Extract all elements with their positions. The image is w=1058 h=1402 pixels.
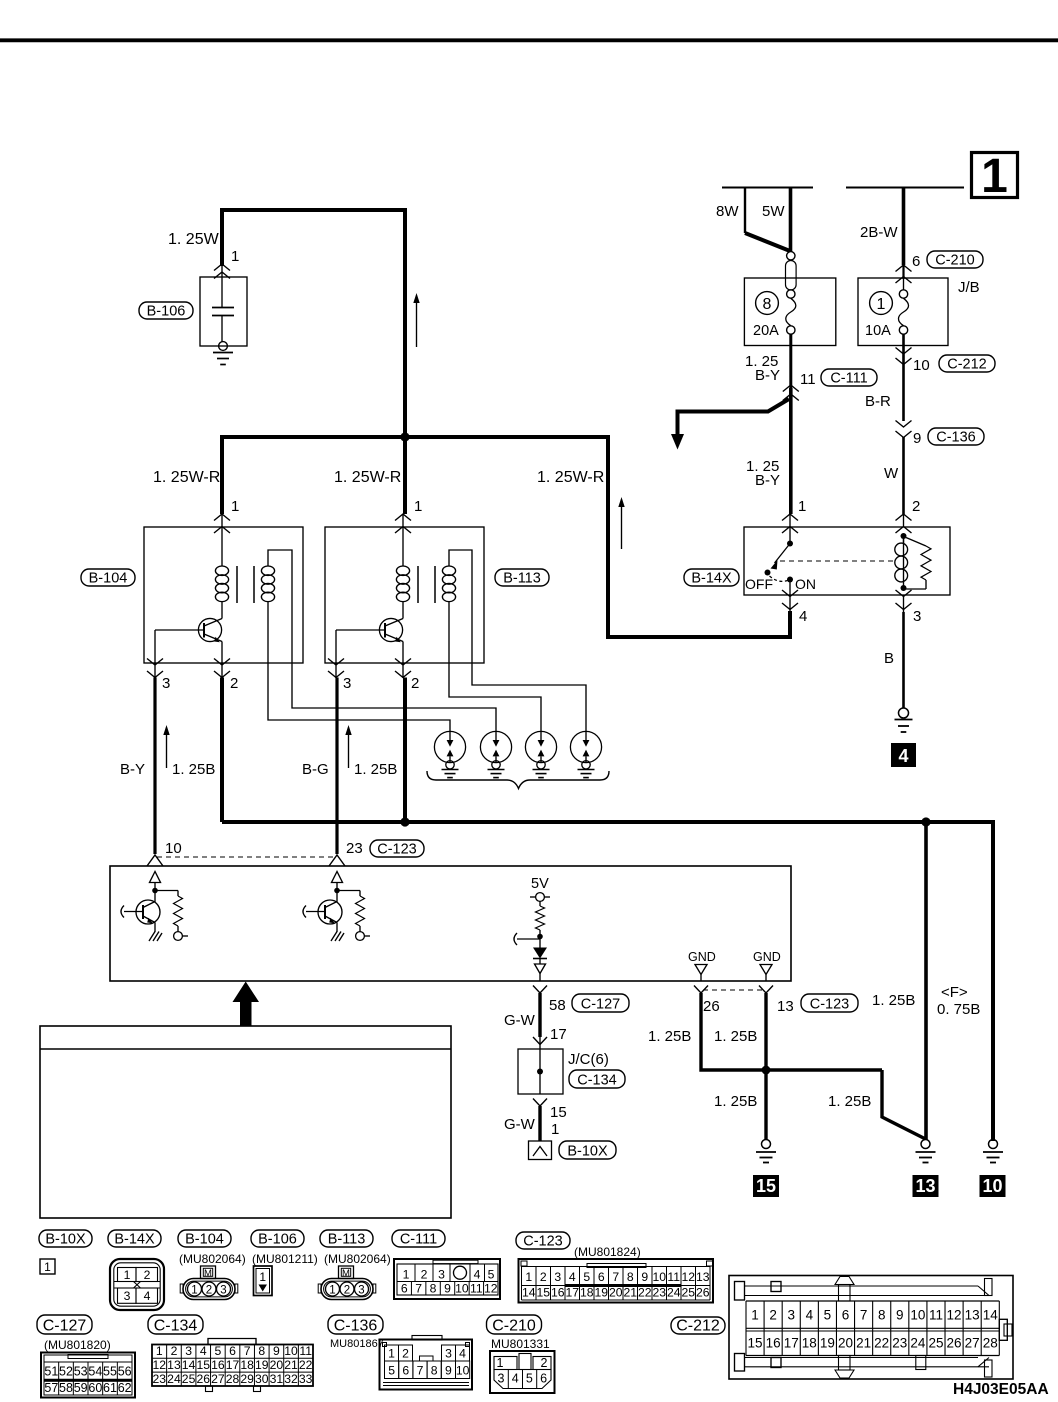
connector chevrons at B-113 pin 2 [402, 663, 404, 678]
svg-text:10: 10 [455, 1282, 469, 1296]
relay B-14X box [744, 527, 950, 595]
input triangle at ECU x=155 [150, 872, 161, 883]
svg-text:3: 3 [445, 1347, 452, 1361]
svg-text:6: 6 [842, 1308, 850, 1323]
current arrow on B-G side wire [348, 734, 350, 768]
svg-text:9: 9 [444, 1282, 451, 1296]
svg-text:5: 5 [214, 1344, 221, 1358]
svg-text:26: 26 [196, 1372, 210, 1386]
svg-text:B-106: B-106 [258, 1232, 297, 1248]
svg-text:7: 7 [612, 1270, 619, 1284]
pin 58 terminal at C-127 [533, 986, 547, 994]
svg-text:6: 6 [598, 1270, 605, 1284]
svg-text:5: 5 [526, 1372, 533, 1386]
transistor inside relay B-113 [379, 618, 402, 641]
svg-text:15: 15 [748, 1336, 763, 1351]
svg-text:26: 26 [696, 1286, 710, 1300]
svg-text:(MU801211): (MU801211) [252, 1252, 318, 1266]
svg-text:12: 12 [681, 1270, 695, 1284]
svg-text:4: 4 [898, 746, 908, 766]
relay B-104 secondary coil [261, 566, 274, 575]
svg-text:1. 25W-R: 1. 25W-R [537, 469, 604, 486]
svg-text:1: 1 [751, 1308, 759, 1323]
connector label C-136 bottom [328, 1315, 383, 1334]
svg-text:22: 22 [299, 1358, 313, 1372]
svg-text:14: 14 [522, 1286, 536, 1300]
wire through C-210 chevrons [902, 265, 904, 279]
svg-text:8: 8 [878, 1308, 886, 1323]
svg-text:60: 60 [88, 1381, 102, 1395]
connector label C-111 [392, 1230, 445, 1247]
svg-text:10: 10 [456, 1364, 470, 1378]
svg-text:5W: 5W [762, 203, 785, 220]
svg-text:9: 9 [445, 1364, 452, 1378]
svg-text:<F>: <F> [941, 984, 968, 1001]
svg-text:1. 25B: 1. 25B [872, 992, 915, 1009]
svg-text:25: 25 [681, 1286, 695, 1300]
svg-text:3: 3 [554, 1270, 561, 1284]
svg-text:13: 13 [777, 998, 794, 1015]
junction dot at top distribution node [400, 432, 409, 441]
svg-text:3: 3 [498, 1372, 505, 1386]
connector label B-106 [251, 1230, 304, 1247]
transistor inside relay B-104 [198, 618, 221, 641]
ground tag 15 [753, 1175, 779, 1197]
ground tag 4 [891, 743, 916, 767]
svg-text:B-104: B-104 [185, 1232, 224, 1248]
svg-text:23: 23 [892, 1336, 907, 1351]
wire G-W pin 58 to J/C [538, 993, 541, 1037]
wire 5W [789, 188, 793, 253]
svg-text:2: 2 [344, 1285, 350, 1297]
svg-text:(MU802064): (MU802064) [179, 1252, 246, 1266]
svg-text:23: 23 [652, 1286, 666, 1300]
svg-text:15: 15 [536, 1286, 550, 1300]
svg-text:B-14X: B-14X [691, 571, 732, 587]
svg-text:4: 4 [200, 1344, 207, 1358]
GND triangle left at pin 26 [695, 965, 707, 975]
svg-text:15: 15 [196, 1358, 210, 1372]
svg-text:9: 9 [273, 1344, 280, 1358]
svg-text:1: 1 [329, 1285, 335, 1297]
bus line top left segment [722, 187, 813, 189]
connector chevrons at B-104 pin 2 [221, 663, 223, 678]
output arrow to pin 58 [535, 964, 546, 974]
svg-text:M: M [342, 1268, 350, 1279]
svg-text:57: 57 [44, 1381, 58, 1395]
ground tag 10 [980, 1175, 1006, 1197]
relay B-104 box [144, 527, 303, 663]
wire B-104 coil to lamp 1 [268, 601, 450, 732]
svg-text:10: 10 [910, 1308, 925, 1323]
svg-text:ON: ON [795, 576, 816, 592]
current arrow on 1.25W-R right branch [621, 506, 623, 549]
connector label C-123 [516, 1232, 570, 1249]
fuse 1 element [899, 290, 907, 298]
svg-text:31: 31 [270, 1372, 284, 1386]
wire 1.25B from pin 26 [701, 993, 882, 1070]
connector label C-134 bottom [148, 1315, 203, 1334]
svg-text:16: 16 [211, 1358, 225, 1372]
svg-text:14: 14 [983, 1308, 999, 1323]
svg-text:16: 16 [551, 1286, 565, 1300]
svg-text:3: 3 [913, 608, 921, 625]
svg-text:1. 25B: 1. 25B [714, 1028, 757, 1045]
svg-text:1. 25B: 1. 25B [648, 1028, 691, 1045]
svg-text:58: 58 [59, 1381, 73, 1395]
connector label B-113 [320, 1230, 373, 1247]
svg-text:20: 20 [270, 1358, 284, 1372]
svg-text:11: 11 [299, 1344, 312, 1358]
ground symbol 10 [989, 1140, 998, 1149]
svg-text:29: 29 [240, 1372, 254, 1386]
svg-text:5: 5 [488, 1268, 495, 1282]
svg-text:55: 55 [103, 1365, 117, 1379]
svg-text:10: 10 [165, 840, 182, 857]
svg-text:12: 12 [947, 1308, 962, 1323]
svg-text:25: 25 [928, 1336, 943, 1351]
svg-text:5: 5 [388, 1364, 395, 1378]
svg-text:5: 5 [824, 1308, 832, 1323]
svg-text:1: 1 [156, 1344, 163, 1358]
connector drawing C-123 [519, 1259, 714, 1303]
pin 10 terminal flare at C-123 [147, 855, 163, 866]
resistor parallel to coil [906, 538, 926, 547]
svg-text:28: 28 [983, 1336, 998, 1351]
connector chevrons at B-104 pin 1 [214, 514, 230, 521]
svg-text:53: 53 [74, 1365, 88, 1379]
svg-text:51: 51 [44, 1365, 58, 1379]
svg-text:9: 9 [896, 1308, 904, 1323]
wire 1.25B drop to ground 13 [924, 822, 928, 1140]
svg-text:52: 52 [59, 1365, 73, 1379]
svg-text:C-136: C-136 [936, 430, 976, 446]
svg-text:MU801867: MU801867 [330, 1338, 384, 1350]
pin 17 terminal at C-134 [533, 1037, 547, 1045]
svg-text:1: 1 [497, 1356, 504, 1370]
connector label B-10X [39, 1230, 92, 1247]
svg-text:23: 23 [153, 1372, 167, 1386]
lamp at x=541 [525, 731, 556, 762]
svg-text:16: 16 [766, 1336, 781, 1351]
svg-text:12: 12 [153, 1358, 167, 1372]
svg-text:11: 11 [800, 371, 816, 388]
svg-text:1. 25B: 1. 25B [828, 1093, 871, 1110]
capacitor B-106 box [200, 277, 247, 346]
relay B-113 contact bars [417, 566, 419, 603]
svg-text:2: 2 [540, 1270, 547, 1284]
joint connector J/C box [518, 1049, 563, 1094]
connector chevrons at B-14X pin 3 [903, 595, 905, 612]
svg-text:8: 8 [627, 1270, 634, 1284]
relay B-113 secondary coil [442, 566, 455, 575]
svg-text:1: 1 [44, 1260, 51, 1274]
connector label B-104 [81, 569, 135, 586]
svg-text:B-10X: B-10X [45, 1232, 86, 1248]
svg-text:32: 32 [284, 1372, 298, 1386]
lamp at x=586 [570, 731, 601, 762]
connector drawing C-134 [208, 1339, 256, 1345]
svg-text:4: 4 [806, 1308, 814, 1323]
brace under lamps [427, 771, 609, 789]
fuse box 8 [744, 278, 835, 346]
lamp at x=450 [434, 731, 465, 762]
pin 26 terminal at C-123 [694, 986, 708, 994]
relay B-113 primary coil [402, 514, 404, 566]
svg-text:19: 19 [255, 1358, 269, 1372]
wire 8W [744, 188, 746, 234]
svg-text:1: 1 [259, 1270, 266, 1284]
wire B-104 coil to lamp 2 [268, 550, 496, 732]
svg-text:7: 7 [417, 1364, 424, 1378]
svg-text:17: 17 [784, 1336, 799, 1351]
wire W to B-14X pin 2 [902, 437, 905, 514]
connector label C-212 inline [939, 355, 995, 372]
base wire to pin 3 of relay B-113 [335, 630, 337, 663]
svg-text:9: 9 [913, 430, 921, 447]
wire from fuse 8 down [789, 334, 792, 392]
wire 1.25B link to ground 13 [882, 1070, 926, 1139]
svg-text:0. 75B: 0. 75B [937, 1001, 980, 1018]
svg-text:C-127: C-127 [43, 1318, 87, 1335]
svg-text:B-113: B-113 [503, 571, 541, 587]
svg-text:6: 6 [912, 253, 920, 270]
svg-text:6: 6 [401, 1282, 408, 1296]
connector label C-210 bottom [487, 1315, 542, 1334]
svg-text:5V: 5V [531, 876, 549, 892]
svg-text:19: 19 [820, 1336, 835, 1351]
svg-text:B-14X: B-14X [114, 1232, 155, 1248]
svg-text:59: 59 [74, 1381, 88, 1395]
svg-text:B-Y: B-Y [755, 367, 780, 384]
svg-text:25: 25 [182, 1372, 196, 1386]
connector drawing C-127 [41, 1353, 135, 1398]
junction dot ground bus at B-113 branch [400, 817, 409, 826]
legend box bottom left [40, 1026, 451, 1218]
svg-text:58: 58 [549, 997, 566, 1014]
svg-text:17: 17 [565, 1286, 579, 1300]
svg-text:B-113: B-113 [328, 1232, 366, 1248]
svg-text:1: 1 [525, 1270, 532, 1284]
lamp at x=496 [480, 731, 511, 762]
wire B from B-14X pin 3 to ground [902, 612, 905, 708]
svg-text:8: 8 [258, 1344, 265, 1358]
capacitor B-106 element [221, 264, 223, 307]
svg-text:G-W: G-W [504, 1012, 536, 1029]
connector label B-14X [108, 1230, 161, 1247]
branch arrow wire to other circuit [678, 399, 790, 436]
svg-text:18: 18 [580, 1286, 594, 1300]
svg-text:C-212: C-212 [947, 357, 987, 373]
wire 1.25B-Y to B-14X pin 1 [789, 388, 793, 514]
svg-text:6: 6 [402, 1364, 409, 1378]
svg-text:B-106: B-106 [147, 304, 186, 320]
junction dot ground bus at right drop [921, 817, 930, 826]
connector label C-210 [927, 251, 983, 268]
svg-text:24: 24 [910, 1336, 926, 1351]
connector drawing C-210 [490, 1351, 555, 1393]
svg-text:B-R: B-R [865, 393, 891, 410]
svg-text:23: 23 [346, 840, 363, 857]
wire B-Y from B-104 pin 3 to ECU pin 10 [153, 678, 156, 855]
svg-text:2: 2 [206, 1285, 212, 1297]
svg-text:21: 21 [284, 1358, 298, 1372]
svg-text:24: 24 [667, 1286, 681, 1300]
svg-text:B-104: B-104 [89, 571, 128, 587]
connector label C-134 inline [569, 1070, 625, 1088]
wire 1.25B from B-113 pin 2 to ground line [403, 678, 407, 823]
svg-text:C-134: C-134 [577, 1073, 617, 1089]
svg-text:1: 1 [191, 1285, 197, 1297]
wire 1.25B from pin 13 to ground 15 [764, 993, 767, 1140]
connector label B-10X inline [559, 1141, 616, 1159]
svg-text:3: 3 [220, 1285, 226, 1297]
svg-text:(MU801824): (MU801824) [574, 1245, 641, 1259]
ground of B-106 [219, 342, 228, 351]
svg-text:30: 30 [255, 1372, 269, 1386]
connector chevrons at C-136 pin 9 [896, 421, 912, 428]
connector drawing C-136 [412, 1336, 442, 1341]
connector chevrons at B-106 pin 1 [214, 264, 230, 271]
page number box 1 [972, 153, 1018, 198]
svg-text:8W: 8W [716, 203, 739, 220]
dashed connector line C-123 bottom [703, 989, 763, 991]
svg-text:9: 9 [641, 1270, 648, 1284]
svg-text:3: 3 [787, 1308, 795, 1323]
svg-text:5: 5 [583, 1270, 590, 1284]
svg-text:J/B: J/B [958, 279, 980, 296]
svg-text:61: 61 [103, 1381, 117, 1395]
ground symbol 15 [762, 1140, 771, 1149]
svg-text:1: 1 [877, 296, 886, 313]
connector label B-106 [139, 302, 193, 319]
svg-text:10: 10 [913, 357, 930, 374]
ground symbol 13 [921, 1140, 930, 1149]
connector chevrons at C-212 pin 10 [896, 348, 912, 355]
svg-text:2: 2 [912, 498, 920, 515]
svg-text:10: 10 [284, 1344, 298, 1358]
svg-text:C-134: C-134 [154, 1318, 198, 1335]
svg-text:10: 10 [652, 1270, 666, 1284]
svg-text:1. 25B: 1. 25B [172, 761, 215, 778]
svg-text:3: 3 [162, 675, 170, 692]
svg-text:1: 1 [798, 498, 806, 515]
svg-text:3: 3 [124, 1289, 131, 1303]
svg-text:20A: 20A [753, 323, 779, 339]
svg-text:B-Y: B-Y [120, 761, 145, 778]
svg-text:B-G: B-G [302, 761, 329, 778]
svg-text:10A: 10A [865, 323, 891, 339]
terminal drawing B-10X [40, 1259, 55, 1274]
connector drawing C-111 [394, 1259, 500, 1299]
svg-text:11: 11 [667, 1270, 680, 1284]
wire 1.25B from B-104 pin 2 to ground line [220, 678, 224, 823]
svg-text:33: 33 [299, 1372, 313, 1386]
svg-text:1: 1 [231, 498, 239, 515]
diode in ECU 5V circuit [533, 948, 547, 959]
svg-text:B: B [884, 650, 894, 667]
relay B-104 primary coil [221, 514, 223, 566]
svg-text:10: 10 [982, 1176, 1002, 1196]
relay B-14X coil [901, 533, 907, 539]
svg-text:18: 18 [240, 1358, 254, 1372]
svg-text:C-127: C-127 [581, 997, 621, 1013]
connector label C-123 inline [801, 994, 858, 1012]
junction dot at ground link [762, 1066, 771, 1075]
wire B-G from B-113 pin 3 to ECU pin 23 [335, 678, 338, 855]
wire 1.25W from B-106 to junction [222, 210, 405, 437]
terminal box B-10X [529, 1141, 552, 1160]
connector chevrons at B-14X pin 4 [789, 595, 791, 612]
svg-text:OFF: OFF [745, 576, 773, 592]
connector label C-212 bottom [671, 1317, 725, 1334]
svg-text:22: 22 [874, 1336, 889, 1351]
relay B-104 contact bars [236, 566, 238, 603]
bus line top right segment [846, 187, 964, 189]
dashed link from switch to coil [780, 560, 897, 562]
svg-text:56: 56 [118, 1365, 132, 1379]
svg-text:20: 20 [838, 1336, 853, 1351]
connector label B-104 [178, 1230, 231, 1247]
fuse box 1 in J/B [858, 278, 948, 346]
svg-text:C-123: C-123 [810, 997, 850, 1013]
svg-text:4: 4 [459, 1347, 466, 1361]
ground symbol 4 [899, 708, 909, 718]
svg-text:13: 13 [965, 1308, 980, 1323]
block arrow into ECU [233, 982, 260, 1027]
svg-text:MU801331: MU801331 [491, 1337, 550, 1351]
GND triangle right at pin 13 [760, 965, 772, 975]
connector chevrons at B-113 pin 1 [395, 514, 411, 521]
wire 2B-W from J/B [902, 188, 906, 266]
svg-text:7: 7 [860, 1308, 868, 1323]
svg-text:12: 12 [484, 1282, 498, 1296]
svg-text:22: 22 [638, 1286, 652, 1300]
svg-text:54: 54 [88, 1365, 102, 1379]
svg-text:2: 2 [230, 675, 238, 692]
svg-text:27: 27 [965, 1336, 980, 1351]
svg-text:17: 17 [550, 1026, 567, 1043]
svg-text:27: 27 [211, 1372, 225, 1386]
svg-text:8: 8 [763, 296, 772, 313]
connector label C-127 inline [572, 994, 629, 1012]
connector chevrons at B-104 pin 3 [154, 663, 156, 678]
pin 23 terminal flare at C-123 [329, 855, 345, 866]
wire B-113 coil to lamp 3 [449, 601, 541, 732]
connector label C-111 [821, 369, 877, 386]
svg-text:1. 25W-R: 1. 25W-R [334, 469, 401, 486]
svg-text:1. 25W: 1. 25W [168, 231, 220, 248]
wire G-W to B-10X [538, 1106, 541, 1141]
svg-text:4: 4 [474, 1268, 481, 1282]
svg-text:11: 11 [929, 1308, 943, 1323]
svg-text:2: 2 [171, 1344, 178, 1358]
svg-text:C-212: C-212 [676, 1318, 720, 1335]
svg-text:1: 1 [388, 1347, 395, 1361]
connector chevrons at B-14X pin 1 [789, 514, 791, 527]
svg-text:7: 7 [244, 1344, 251, 1358]
svg-text:1: 1 [231, 248, 239, 265]
svg-text:1: 1 [414, 498, 422, 515]
svg-text:26: 26 [703, 998, 720, 1015]
svg-text:7: 7 [415, 1282, 422, 1296]
svg-text:(MU801820): (MU801820) [44, 1338, 111, 1352]
svg-text:2: 2 [144, 1268, 151, 1282]
svg-text:(MU802064): (MU802064) [324, 1252, 391, 1266]
svg-text:1: 1 [403, 1268, 410, 1282]
svg-text:B-10X: B-10X [567, 1144, 608, 1160]
svg-text:C-123: C-123 [377, 842, 417, 858]
